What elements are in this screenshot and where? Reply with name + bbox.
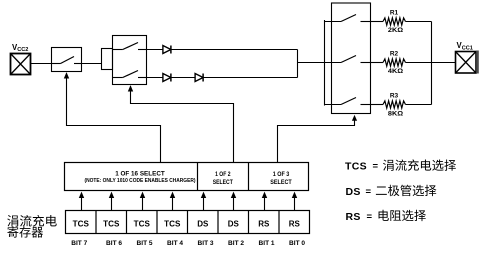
svg-text:DS: DS — [197, 220, 209, 229]
svg-text:SELECT: SELECT — [213, 179, 234, 186]
svg-text:1 OF 3: 1 OF 3 — [273, 171, 290, 178]
svg-text:RS: RS — [346, 211, 361, 223]
svg-text:=: = — [367, 211, 373, 222]
svg-text:TCS: TCS — [345, 161, 367, 173]
svg-text:DS: DS — [228, 220, 240, 229]
svg-text:BIT 7: BIT 7 — [71, 240, 87, 247]
svg-text:R1: R1 — [390, 10, 399, 17]
svg-text:RS: RS — [289, 220, 301, 229]
svg-text:8KΩ: 8KΩ — [388, 111, 403, 118]
svg-text:TCS: TCS — [164, 220, 181, 229]
svg-text:R3: R3 — [390, 93, 399, 100]
svg-text:BIT 3: BIT 3 — [198, 240, 214, 247]
svg-text:BIT 5: BIT 5 — [137, 240, 153, 247]
svg-text:SELECT: SELECT — [270, 179, 292, 186]
svg-text:2KΩ: 2KΩ — [388, 27, 403, 34]
svg-text:TCS: TCS — [73, 220, 90, 229]
svg-text:4KΩ: 4KΩ — [388, 68, 403, 75]
svg-text:DS: DS — [346, 186, 361, 198]
svg-text:R2: R2 — [390, 51, 399, 58]
svg-text:BIT 2: BIT 2 — [228, 240, 244, 247]
svg-text:1 OF 2: 1 OF 2 — [215, 171, 231, 178]
svg-text:(NOTE: ONLY 1010 CODE ENABLES: (NOTE: ONLY 1010 CODE ENABLES CHARGER) — [85, 178, 196, 184]
svg-text:RS: RS — [258, 220, 270, 229]
svg-text:=: = — [366, 186, 372, 197]
svg-text:BIT 4: BIT 4 — [167, 240, 183, 247]
svg-text:TCS: TCS — [103, 220, 120, 229]
svg-text:BIT 0: BIT 0 — [289, 240, 305, 247]
svg-text:BIT 6: BIT 6 — [106, 240, 122, 247]
svg-text:1 OF 16 SELECT: 1 OF 16 SELECT — [115, 170, 165, 177]
svg-text:TCS: TCS — [134, 220, 151, 229]
svg-text:=: = — [373, 161, 379, 172]
svg-text:BIT 1: BIT 1 — [259, 240, 275, 247]
